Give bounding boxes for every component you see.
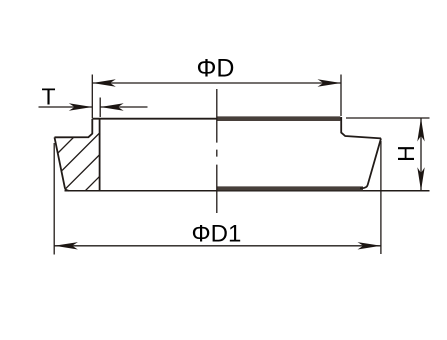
left outer slant — [55, 137, 69, 190]
dimension T: short extension line — [99, 98, 101, 118]
arrowhead PhiD1 left — [54, 242, 78, 249]
dimension PhiD1: dimension line — [54, 245, 381, 247]
top surface line (section, thin, left half) — [92, 118, 341, 120]
dimension PhiD: extension line left — [91, 75, 93, 119]
hatching of sectioned wall — [11, 80, 196, 200]
arrowhead H bottom (pointing down) — [417, 167, 424, 191]
dimension PhiD: dimension line — [92, 82, 341, 84]
svg-text:H: H — [393, 145, 419, 162]
dimension PhiD1: extension line left — [53, 143, 55, 255]
top surface thick visible edge (right half) — [217, 116, 340, 121]
bottom thick visible edge (right half) — [217, 186, 363, 190]
arrowhead H top (pointing up) — [417, 118, 424, 142]
svg-text:T: T — [41, 84, 55, 110]
dimension PhiD: extension line right — [340, 75, 342, 117]
left step and rim top edge — [55, 119, 93, 138]
dimension H: extension line top — [346, 117, 430, 119]
dimension H: dimension line — [420, 118, 422, 191]
dimension T: right line — [100, 106, 147, 108]
centerline (dash-dot) — [216, 89, 218, 213]
arrowhead T right (pointing left) — [100, 103, 124, 110]
bottom rim line — [65, 190, 430, 192]
svg-text:ΦD1: ΦD1 — [191, 221, 241, 248]
arrowhead T left (pointing right) — [69, 103, 93, 110]
arrowhead PhiD left — [92, 79, 116, 86]
arrowhead PhiD right — [318, 79, 342, 86]
right outer slant — [360, 138, 381, 188]
dimension T: left line — [39, 106, 93, 108]
dimension PhiD1: extension line right — [380, 141, 382, 254]
right step and rim top edge — [341, 117, 381, 138]
inner wall line (left section) — [99, 119, 101, 190]
arrowhead PhiD1 right — [358, 242, 382, 249]
svg-text:ΦD: ΦD — [196, 55, 234, 83]
